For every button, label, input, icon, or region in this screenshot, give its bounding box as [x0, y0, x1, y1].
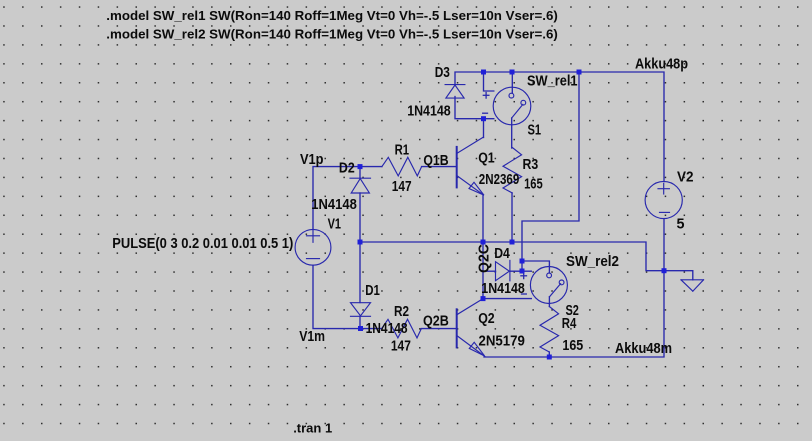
- wire Q1 collector vertical: [483, 119, 485, 138]
- label R2: [394, 304, 409, 320]
- node Akku48p: [635, 56, 688, 72]
- svg-text:.model SW_rel2 SW(Ron=140 Roff: .model SW_rel2 SW(Ron=140 Roff=1Meg Vt=0…: [106, 27, 558, 42]
- wire D3 bottom to S1 minus: [455, 97, 494, 119]
- diode D3: [445, 85, 465, 99]
- svg-text:165: 165: [524, 177, 543, 193]
- label Q2: [478, 311, 495, 327]
- svg-text:.tran 1: .tran 1: [293, 421, 332, 436]
- junction mid rail D2 D1: [358, 240, 363, 245]
- svg-text:D4: D4: [494, 246, 510, 262]
- svg-text:1N4148: 1N4148: [311, 197, 357, 213]
- svg-text:D1: D1: [365, 283, 380, 299]
- svg-text:V2: V2: [677, 169, 694, 185]
- node Q2B: [423, 313, 449, 329]
- svg-text:SW_rel1: SW_rel1: [527, 74, 578, 90]
- svg-text:1N4148: 1N4148: [407, 103, 451, 119]
- label SW_rel1: [527, 74, 578, 90]
- svg-text:2N5179: 2N5179: [479, 333, 525, 349]
- svg-text:D3: D3: [435, 65, 450, 81]
- switch S1 SW_rel1: [483, 87, 531, 125]
- value D2 1N4148: [311, 197, 357, 213]
- wire Akku48m right drop: [549, 271, 664, 357]
- svg-text:PULSE(0 3 0.2 0.01 0.01 0.5 1): PULSE(0 3 0.2 0.01 0.01 0.5 1): [112, 236, 293, 252]
- node V1p: [300, 152, 324, 168]
- label D2: [339, 160, 355, 176]
- junction mid rail R3: [510, 240, 515, 245]
- wire R3 bottom lead: [511, 193, 513, 242]
- label Q1: [478, 151, 495, 167]
- svg-text:S1: S1: [528, 122, 542, 138]
- wire S2 bottom pin: [548, 297, 550, 307]
- svg-text:Q1B: Q1B: [423, 153, 448, 169]
- svg-text:V1p: V1p: [300, 152, 324, 168]
- junction S2 top feed: [520, 259, 525, 264]
- diode D2: [350, 178, 371, 193]
- wire D2 bottom lead: [359, 193, 361, 242]
- value PULSE V1: [112, 236, 293, 252]
- label D3: [435, 65, 450, 81]
- wire R2 to Q2 base: [421, 328, 456, 330]
- svg-text:1N4148: 1N4148: [366, 321, 408, 337]
- svg-text:147: 147: [392, 179, 412, 195]
- junction R4 Akku48m: [547, 355, 552, 360]
- wire S2 top pin feed: [522, 261, 549, 273]
- value D3 1N4148: [407, 103, 451, 119]
- wire Akku48m bottom rail: [484, 356, 549, 358]
- value R4 165: [562, 338, 583, 354]
- directive .model SW_rel1: [106, 8, 558, 23]
- label R3: [523, 157, 539, 173]
- svg-text:Q2B: Q2B: [423, 313, 449, 329]
- svg-text:Q2C: Q2C: [477, 244, 493, 273]
- junction rail S1 plus: [481, 70, 486, 75]
- svg-text:5: 5: [677, 217, 685, 233]
- wire D4 anode lead: [483, 270, 496, 272]
- wire ground stub: [664, 271, 693, 280]
- svg-text:R2: R2: [394, 304, 409, 320]
- diode D1: [351, 303, 371, 317]
- svg-text:165: 165: [562, 338, 583, 354]
- node V1m: [299, 329, 325, 345]
- wire R4 bottom lead: [548, 352, 550, 357]
- wire D4 cathode to S2 plus: [510, 270, 531, 272]
- diode D4: [496, 260, 510, 280]
- node Q2C rotated: [477, 244, 493, 273]
- svg-text:147: 147: [391, 339, 411, 355]
- label D4: [494, 246, 510, 262]
- wire top Akku48p rail: [455, 72, 664, 182]
- svg-text:D2: D2: [339, 160, 355, 176]
- label V2: [677, 169, 694, 185]
- resistor R2: [382, 319, 422, 338]
- value V2 5: [677, 217, 685, 233]
- wire S1 bottom pin: [511, 118, 513, 148]
- svg-text:Akku48m: Akku48m: [615, 341, 672, 357]
- svg-text:1N4148: 1N4148: [481, 281, 525, 297]
- value D1 1N4148: [366, 321, 408, 337]
- wire node Q2C vertical: [482, 242, 484, 299]
- transistor Q1: [457, 137, 484, 195]
- svg-text:V1: V1: [328, 216, 341, 232]
- wire D1 bottom lead: [359, 316, 361, 328]
- svg-text:R1: R1: [395, 142, 410, 158]
- wire V1p rail: [313, 167, 457, 230]
- svg-text:2N2369: 2N2369: [479, 172, 520, 188]
- resistor R1: [382, 157, 422, 176]
- voltage source V1: [295, 229, 331, 265]
- svg-text:Q1: Q1: [478, 151, 495, 167]
- directive .tran: [293, 421, 332, 436]
- node Q1B: [423, 153, 448, 169]
- wire Q1 emitter vertical: [482, 195, 484, 242]
- junction mid rail Q1 emitter: [481, 240, 486, 245]
- svg-text:R4: R4: [562, 316, 577, 332]
- wire S1 top pin: [511, 72, 513, 93]
- label R1: [395, 142, 410, 158]
- wire D2 top lead: [359, 167, 361, 179]
- svg-text:V1m: V1m: [299, 329, 325, 345]
- junction V2 ground: [662, 268, 667, 273]
- wire Akku48p to S2 feed: [522, 72, 579, 271]
- label S1: [528, 122, 542, 138]
- resistor R3: [503, 148, 522, 194]
- wire S1 plus drop: [484, 72, 494, 91]
- label SW_rel2: [566, 254, 619, 270]
- wire S2 minus to Q2 collector: [483, 298, 531, 300]
- svg-text:.model SW_rel1 SW(Ron=140 Roff: .model SW_rel1 SW(Ron=140 Roff=1Meg Vt=0…: [106, 8, 558, 23]
- value D4 1N4148: [481, 281, 525, 297]
- wire V2 bottom lead: [663, 219, 665, 271]
- wire D1 top lead: [359, 242, 361, 303]
- ground: [681, 280, 704, 291]
- junction V1p D2: [358, 164, 363, 169]
- junction rail right drop: [577, 70, 582, 75]
- svg-text:Akku48p: Akku48p: [635, 56, 688, 72]
- value R3 165: [524, 177, 543, 193]
- label R4: [562, 316, 577, 332]
- value R2 147: [391, 339, 411, 355]
- label D1: [365, 283, 380, 299]
- value Q1 2N2369: [479, 172, 520, 188]
- node Akku48m: [615, 341, 672, 357]
- wire V1 bottom to V1m rail: [313, 265, 382, 328]
- directive .model SW_rel2: [106, 27, 558, 42]
- svg-text:SW_rel2: SW_rel2: [566, 254, 619, 270]
- label S2: [566, 303, 579, 319]
- value Q2 2N5179: [479, 333, 525, 349]
- resistor R4: [540, 307, 559, 353]
- junction V1m D1: [358, 326, 363, 331]
- junction Q2 collector: [481, 296, 486, 301]
- junction S2 plus D4: [520, 269, 525, 274]
- svg-text:R3: R3: [523, 157, 539, 173]
- junction D3 S1 minus: [481, 116, 486, 121]
- transistor Q2: [457, 299, 485, 357]
- voltage source V2: [645, 181, 682, 218]
- switch S2 SW_rel2: [521, 267, 568, 304]
- wire middle rail V2 minus: [360, 242, 664, 271]
- junction rail S1 top: [510, 70, 515, 75]
- svg-text:Q2: Q2: [478, 311, 495, 327]
- label V1: [328, 216, 341, 232]
- value R1 147: [392, 179, 412, 195]
